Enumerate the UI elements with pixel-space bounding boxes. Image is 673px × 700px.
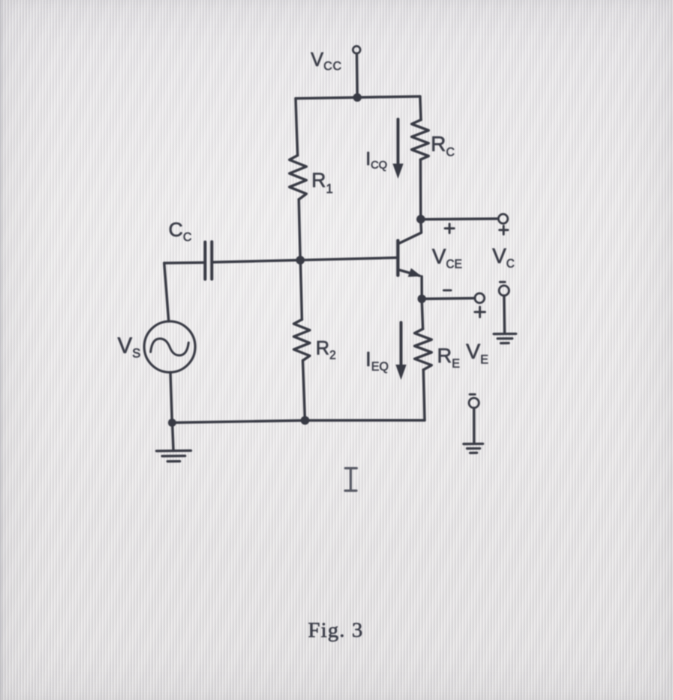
current arrow Icq [393,119,404,178]
resistor R1 [289,155,306,199]
wire top rail right drop to Rc [419,96,422,119]
node base junction dot [296,256,305,265]
wire Vcc terminal to top node [355,54,358,96]
resistor R2 [294,320,310,361]
transistor Q1 emitter lead [399,270,420,276]
minus sign on emitter wire [444,289,451,291]
svg-text:VCE: VCE [432,245,462,271]
svg-text:IEQ: IEQ [366,348,389,374]
wire Vc terminal to ground [503,296,506,334]
minus sign above Vc ground terminal [500,281,505,283]
wire Cc to base node [213,260,296,262]
current arrow Ieq [396,323,407,380]
wire bottom rail [172,420,425,422]
capacitor Cc plates [205,242,212,279]
wire collector node to Vce+ terminal [425,217,498,220]
plus sign under Vce- terminal [475,307,485,317]
node Vcc junction dot [353,93,362,102]
svg-text:RC: RC [431,133,455,159]
wire top rail left drop to R1 [296,98,298,155]
transistor Q1 collector lead [399,222,422,244]
transistor Q1 emitter arrowhead [408,268,422,277]
plus sign on collector wire [445,224,454,233]
wire Vs to ground node [170,372,172,420]
wire top rail [296,96,421,98]
terminal circle Vce- [475,293,485,303]
transistor Q1 base wire [305,258,397,260]
wire Ve terminal to ground [473,408,476,443]
text cursor I-beam [345,468,357,491]
ground left [156,451,191,462]
transistor Q1 base bar [396,241,399,276]
minus sign above Ve ground terminal [470,393,475,395]
resistor Re [415,329,432,370]
Vcc terminal circle [353,46,360,53]
wire emitter node to Re [422,303,423,329]
svg-text:VE: VE [466,340,488,367]
svg-text:VS: VS [118,333,141,361]
wire Re to bottom rail [423,370,424,421]
svg-text:ICQ: ICQ [366,148,388,172]
wire R1 to base node [299,199,300,256]
wire R2 to bottom rail [303,361,305,420]
svg-text:VCC: VCC [311,50,342,73]
wire ground-left stub [172,427,173,451]
wire emitter node to Vce- terminal [426,297,475,300]
wire base node to R2 [301,264,302,320]
wire source branch vertical [164,263,169,321]
plus sign under Vce+ terminal [499,226,508,235]
node emitter junction dot [418,295,427,304]
capacitor Cc left wire [164,261,204,264]
wire Rc to collector node [419,160,422,216]
svg-text:VC: VC [492,245,514,271]
ground Vc [494,334,516,343]
resistor Rc [412,120,429,160]
source Vs sine wave [151,339,189,356]
svg-text:R2: R2 [316,339,336,363]
node collector junction dot [416,215,425,224]
terminal circle Vce+ [498,214,507,223]
node bottom mid junction dot [301,416,310,425]
source Vs circle [144,321,195,372]
svg-text:CC: CC [169,219,192,244]
wire emitter to emitter node [420,276,423,295]
terminal circle Vc ground [499,286,509,296]
svg-text:Fig. 3: Fig. 3 [308,618,364,642]
node ground-left junction dot [168,419,176,427]
terminal circle Ve ground [469,398,479,408]
svg-text:R1: R1 [312,170,333,196]
ground Ve [464,444,484,453]
svg-text:RE: RE [437,345,460,371]
